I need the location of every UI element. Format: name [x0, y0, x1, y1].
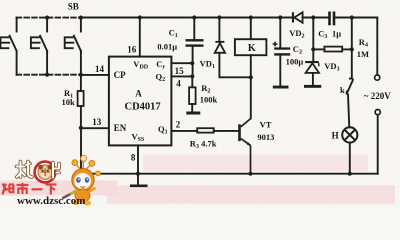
wire lower terminal to bottom rail [377, 115, 379, 174]
junction SB2 bottom [45, 73, 49, 77]
lamp H [342, 127, 357, 142]
junction node EN / R1 [79, 126, 83, 130]
diode VD2 [292, 12, 303, 22]
wire bottom rail [81, 173, 378, 175]
wire relay bottom lead to collector [250, 55, 252, 118]
watermark band upper [143, 155, 368, 172]
wire top dashed rail [17, 17, 81, 19]
junction pin8 / bottom rail [136, 172, 140, 176]
wire R4 left stub [313, 48, 324, 50]
junction relay / rail [249, 15, 253, 19]
junction VD1 / collector node [249, 75, 253, 79]
IC U1 CD4017 [109, 57, 171, 146]
watermark text weiku [3, 183, 57, 195]
junction R4 left [311, 47, 315, 51]
wire VD3 bottom lead [312, 73, 314, 85]
watermark mascot [62, 155, 101, 205]
junction SB2 top [45, 16, 49, 20]
wire top rail [81, 17, 292, 19]
wire R2 top stub [191, 76, 193, 87]
junction VD3 node / rail [311, 15, 315, 19]
wire left vertical EN to bottom rail [80, 128, 82, 174]
ground pin 8 [130, 185, 148, 188]
wire R2 bottom stub [191, 104, 193, 112]
wire R4 right stub [342, 48, 352, 50]
junction emitter / bottom rail [248, 172, 252, 176]
wire relay top lead [250, 18, 252, 40]
wire node 313 vertical [312, 18, 314, 62]
wire lamp bottom lead [349, 143, 351, 174]
wire EN pin 13 [81, 127, 109, 129]
wire pin 15 [171, 62, 192, 64]
resistor R3 [197, 128, 214, 132]
transistor VT 9013 [238, 118, 251, 173]
wire C2 bottom lead [279, 56, 281, 86]
terminal lower [375, 110, 380, 115]
wire R1 top stub [80, 75, 82, 91]
resistor R1 [78, 91, 84, 106]
junction R4 right [350, 47, 354, 51]
junction node Q2 pin4 [190, 74, 194, 78]
junction C1 / rail [192, 15, 196, 19]
wire R1 bottom stub [80, 106, 82, 128]
junction C2 / rail [278, 15, 282, 19]
junction node reset pin15 [190, 61, 194, 65]
wire R3 to base [214, 130, 239, 132]
diode VD1 [215, 41, 225, 53]
wire C1 bottom lead [192, 47, 194, 77]
wire top rail after VD2 [302, 17, 328, 19]
zener VD3 [305, 61, 319, 73]
wire right drop to terminal [376, 18, 378, 75]
wire pin 4 [171, 75, 192, 77]
junction node CP / R1 [79, 73, 83, 77]
terminal upper [375, 75, 380, 80]
junction C3 right / rail [350, 15, 354, 19]
wire top rail after C3 [335, 17, 377, 19]
watermark char zhao [17, 162, 33, 178]
watermark logo [3, 155, 101, 207]
wire C2 top lead [279, 18, 281, 48]
wire pin 16 [139, 18, 141, 57]
wire k1 lamp wire [348, 95, 349, 128]
relay K [235, 39, 267, 55]
resistor R2 [189, 87, 196, 104]
wire CP pin 14 [81, 74, 109, 76]
watermark band behind logo text [0, 181, 117, 196]
wire ground stub pin 8 [137, 174, 139, 185]
wire bottom dashed rail [17, 74, 81, 76]
junction lamp / bottom rail [348, 172, 352, 176]
capacitor C1 [186, 39, 204, 47]
junction VD1 / rail [217, 15, 221, 19]
watermark char pian [53, 163, 59, 178]
wire C1 top lead [193, 18, 195, 40]
wire pin 2 [171, 130, 197, 132]
switch k1 [347, 79, 353, 94]
capacitor C3 [328, 12, 335, 26]
pushbutton SB2 [31, 18, 47, 75]
ground under R2 [186, 112, 200, 115]
capacitor C2 [274, 47, 290, 55]
resistor R4 [324, 47, 342, 52]
pushbutton SB1 [0, 18, 16, 75]
ground under C2 [273, 86, 289, 89]
wire VD1 bottom lead [219, 53, 250, 78]
ground under VD3 [304, 85, 321, 88]
watermark seal circle [35, 162, 56, 183]
pushbutton SB3 [65, 18, 81, 75]
watermark band lower [107, 185, 395, 203]
wire pin 8 [137, 145, 139, 173]
junction SB3 / rail [79, 16, 83, 20]
junction pin16 / rail [138, 15, 142, 19]
wire VD1 top lead [218, 18, 220, 41]
label plus C2 [273, 42, 278, 47]
wire k1 feed vertical [351, 18, 353, 79]
